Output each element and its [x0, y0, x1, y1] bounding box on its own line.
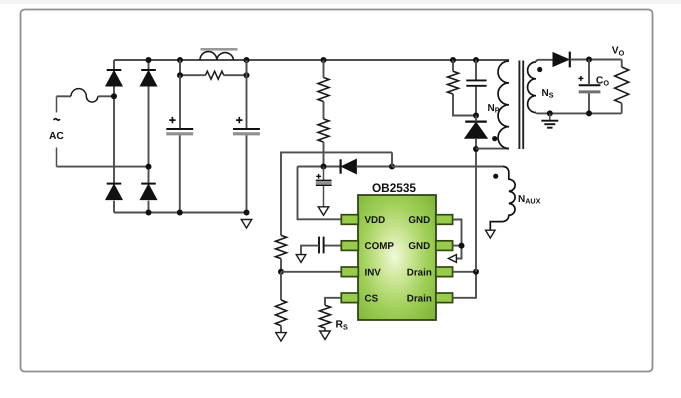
junction R1 left — [177, 72, 183, 78]
wire snubber R bottom — [453, 94, 476, 116]
transformer core — [519, 61, 523, 150]
svg-text:CS: CS — [365, 293, 379, 304]
bridge diode D3 — [106, 184, 122, 200]
transformer secondary winding Ns — [528, 62, 536, 113]
wire R5 top lead — [280, 272, 282, 300]
node primary polarity dot — [492, 136, 497, 141]
wire GND pins tie — [453, 220, 462, 259]
wire C1 top lead — [179, 75, 181, 128]
svg-text:Drain: Drain — [407, 293, 432, 304]
snubber capacitor C5 — [466, 80, 486, 85]
junction ground rail end — [244, 210, 250, 216]
svg-text:GND: GND — [408, 241, 430, 252]
wire D5 anode — [356, 166, 392, 168]
node aux polarity dot — [493, 174, 498, 179]
wire sense feedback run — [281, 152, 392, 235]
junction snubber C top — [473, 57, 479, 63]
fuse F1 — [71, 89, 98, 102]
snubber resistor R6 — [448, 71, 459, 94]
junction D2 top rail — [146, 57, 152, 63]
output capacitor Co — [578, 76, 600, 92]
bridge diode D2 — [140, 70, 156, 86]
pin CS stub — [341, 293, 358, 303]
junction aux sense node — [389, 164, 395, 170]
wire top rail — [114, 59, 509, 61]
wire AC neutral — [57, 166, 149, 168]
wire between startup resistors — [323, 102, 325, 120]
wire output rail — [570, 59, 622, 61]
pin Drain1 stub — [436, 267, 453, 277]
ground arrow GND pins — [448, 255, 456, 263]
EMI choke L1 — [200, 49, 238, 60]
wire output return rail — [550, 112, 622, 114]
svg-text:OB2535: OB2535 — [372, 181, 416, 195]
junction D4 bottom rail — [146, 210, 152, 216]
wire snubber R top lead — [452, 60, 454, 71]
wire startup bottom lead — [323, 142, 325, 167]
op-amp controller U1 OB2535 body — [358, 181, 436, 320]
pin GND1 stub — [436, 215, 453, 225]
wire CS — [325, 298, 342, 305]
wire primary ground rail — [114, 212, 247, 214]
junction output node — [586, 57, 592, 63]
wire INV — [281, 271, 342, 273]
output diode D7 — [553, 52, 570, 68]
wire bridge column 1 — [113, 60, 115, 213]
wire AC hot with fuse lead — [57, 95, 72, 97]
wire C2 top lead — [246, 60, 248, 128]
pin VDD stub — [341, 215, 358, 225]
sense resistor Rs — [320, 305, 331, 328]
junction C1 ground — [177, 210, 183, 216]
junction snubber bottom — [473, 113, 479, 119]
earth ground — [541, 113, 558, 127]
wire C1 bottom lead — [179, 135, 181, 212]
junction startup chain top — [321, 57, 327, 63]
junction drain — [473, 269, 479, 275]
junction fuse-bridge — [111, 93, 117, 99]
bulk capacitor C2 — [233, 117, 260, 134]
ground arrow aux — [486, 230, 496, 238]
wire aux top run — [392, 166, 503, 168]
svg-text:Drain: Drain — [407, 267, 432, 278]
junction Co bottom — [586, 110, 592, 116]
VDD rectifier diode D5 — [341, 159, 357, 173]
ground arrow COMP — [296, 255, 306, 263]
COMP capacitor C4 — [319, 237, 324, 254]
wire COMP — [324, 245, 341, 247]
wire primary bottom — [476, 148, 509, 150]
startup resistor R3 — [318, 119, 329, 142]
wire R5 bottom lead — [280, 326, 282, 333]
AC source — [49, 96, 64, 166]
startup resistor R2 — [318, 78, 329, 102]
VDD capacitor C3 — [316, 167, 332, 207]
wire clamp diode leads — [475, 116, 477, 150]
wire VDD node horizontal — [298, 166, 341, 168]
svg-text:INV: INV — [365, 267, 382, 278]
wire drain column — [475, 149, 477, 272]
bridge diode D4 — [140, 184, 156, 200]
wire damping resistor right lead — [224, 60, 247, 75]
wire secondary bottom — [536, 112, 550, 115]
ground arrow divider — [276, 333, 287, 342]
svg-text:VDD: VDD — [365, 215, 386, 226]
junction rail C2 — [244, 57, 250, 63]
wire bridge column 2 — [148, 60, 150, 213]
pin GND2 stub — [436, 241, 453, 251]
pin COMP stub — [341, 241, 358, 251]
wire Co bottom lead — [588, 93, 590, 113]
wire Rs bottom lead — [324, 328, 326, 331]
wire secondary top — [536, 60, 553, 62]
clamp diode D6 — [465, 122, 487, 139]
divider resistor R5 — [276, 300, 287, 326]
primary ground arrow — [241, 220, 252, 229]
wire load resistor top lead — [621, 60, 623, 68]
wire R4 to INV junction — [280, 259, 282, 272]
junction GND tie — [459, 243, 465, 249]
junction snubber R top — [450, 57, 456, 63]
junction neutral-bridge — [146, 164, 152, 170]
wire COMP cap to ground — [301, 246, 319, 255]
aux winding Naux — [490, 166, 515, 230]
junction VDD node — [321, 164, 327, 170]
junction secondary ground — [547, 110, 553, 116]
wire fuse to bridge — [98, 95, 114, 97]
svg-text:AC: AC — [49, 131, 64, 142]
junction primary bottom — [473, 146, 479, 152]
bulk capacitor C1 — [166, 117, 193, 134]
wire Co top lead — [588, 60, 590, 85]
divider resistor R4 — [276, 235, 287, 258]
pin INV stub — [341, 267, 358, 277]
wire VDD loop — [298, 167, 342, 220]
wire startup top lead — [323, 60, 325, 78]
junction rail C1 — [177, 57, 183, 63]
wire Drain2 — [453, 272, 476, 298]
wire snubber C leads — [475, 60, 477, 116]
load resistor RL — [615, 67, 629, 103]
wire damping resistor left lead — [180, 60, 206, 75]
ground arrow Rs — [320, 331, 331, 340]
svg-text:COMP: COMP — [365, 241, 395, 252]
ground arrow VDD capacitor — [318, 207, 329, 216]
transformer primary winding Np — [498, 61, 509, 149]
wire load resistor bottom lead — [621, 103, 623, 113]
bridge diode D1 — [106, 70, 122, 86]
damping resistor R1 — [206, 71, 224, 79]
wire C2 bottom lead — [246, 135, 248, 212]
wire aux node riser — [391, 152, 393, 166]
node secondary polarity dot — [537, 67, 542, 72]
wire Drain1 — [453, 271, 476, 273]
junction R1 right — [244, 72, 250, 78]
svg-text:GND: GND — [408, 215, 430, 226]
junction INV divider — [278, 269, 284, 275]
pin Drain2 stub — [436, 293, 453, 303]
